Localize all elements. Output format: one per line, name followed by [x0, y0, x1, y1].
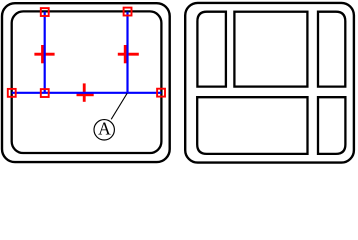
pad P1 (top of V1) — [41, 8, 49, 16]
junction cross J1 on left vertical wire — [34, 45, 54, 63]
wire horizontal H1 — [12, 92, 162, 94]
wire vertical V1 — [44, 12, 46, 93]
callout leader line to node A — [111, 93, 127, 119]
room region R4 (bottom-left, rounded bottom-left corner) — [197, 97, 307, 154]
node A callout circle — [94, 120, 114, 140]
junction cross J3 on horizontal wire — [77, 83, 94, 101]
svg-text:A: A — [98, 119, 111, 139]
pad P2 (top of V2) — [124, 8, 132, 16]
wire vertical V2 — [126, 12, 128, 93]
room region S2 (top-middle) — [234, 12, 307, 87]
junction cross J2 on right vertical wire — [118, 45, 139, 63]
schematic sheet outer border (left panel) — [2, 3, 170, 162]
room region R5 (bottom-right, rounded bottom-right corner) — [318, 97, 345, 154]
schematic sheet inner border (left panel) — [12, 11, 162, 153]
room region S3 (top-right, rounded top-right corner) — [318, 12, 345, 87]
pad P3 (left end of H1) — [8, 89, 16, 97]
pad P5 (right end of H1) — [157, 89, 165, 97]
board outline (right panel) — [185, 3, 354, 163]
room region S1 (top-left, rounded top-left corner) — [197, 12, 226, 87]
pad P4 (junction V1/H1) — [41, 89, 49, 97]
